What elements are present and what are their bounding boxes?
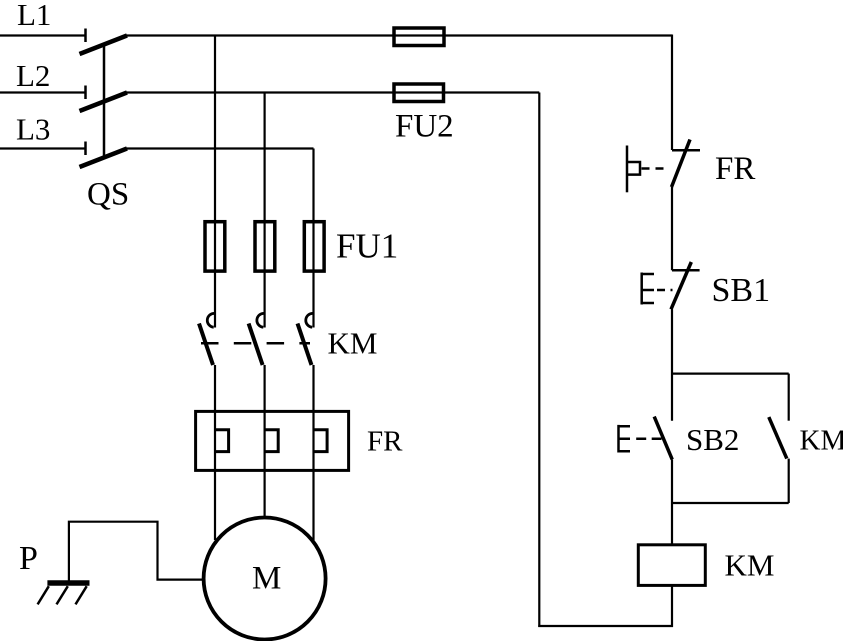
button SB1 blade — [671, 262, 691, 309]
wire rail SB2 to bottom branch — [671, 459, 673, 544]
wire rail SB1 to branch — [671, 309, 673, 420]
button SB1 dashed link — [657, 289, 673, 292]
wire left control rail (to FU2 lower) — [538, 93, 540, 628]
FR contact blade — [672, 140, 691, 188]
motor M circle — [204, 518, 326, 640]
FR trip dashed link — [642, 167, 665, 170]
wire L2 input — [0, 91, 86, 93]
wire bottom return horizontal — [538, 625, 673, 627]
contactor KM main contact 3 arc — [306, 313, 313, 327]
control rail right vertical (from L1) — [671, 35, 673, 151]
QS pole 2 blade — [80, 93, 128, 112]
wire phase 2 vertical — [264, 93, 266, 328]
wire phase 3 vertical — [312, 149, 314, 328]
switch QS linkage bar — [103, 44, 106, 158]
wire branch bottom horizontal — [672, 502, 789, 504]
contactor KM auxiliary contact blade — [769, 417, 787, 459]
FR trip actuator bar — [626, 146, 629, 193]
svg-text:KM: KM — [328, 326, 378, 361]
FR trip actuator bump — [628, 162, 640, 175]
svg-text:FR: FR — [715, 151, 755, 187]
contactor KM main contact 1 arc — [207, 313, 214, 327]
QS pole 3 blade — [80, 149, 128, 168]
contactor KM main contact 2 blade — [249, 324, 263, 366]
wire phase 3 below KM contact to motor — [312, 365, 314, 540]
QS pole 1 blade — [80, 36, 128, 55]
wire earth to motor frame — [69, 522, 205, 582]
QS pole 3 fixed contact tick — [84, 142, 87, 156]
svg-text:P: P — [19, 540, 38, 577]
earth hatch 2 — [57, 586, 68, 604]
button SB1 fixed tick — [672, 269, 700, 272]
contactor KM linkage dashed line — [201, 342, 310, 345]
wire phase 1 vertical (L1 down to KM contact) — [214, 36, 216, 328]
wire L2 to left control rail — [127, 91, 540, 93]
earth hatch 3 — [76, 586, 87, 604]
FR heater element 1 — [215, 430, 229, 452]
svg-text:L2: L2 — [16, 58, 50, 93]
svg-text:FU2: FU2 — [395, 109, 454, 145]
fuse FU1 phase 1 — [205, 222, 225, 271]
earth hatch 1 — [38, 586, 49, 604]
earth bar — [47, 580, 89, 586]
FR heater element 2 — [265, 430, 279, 452]
QS pole 1 fixed contact tick — [84, 29, 87, 43]
wire L3 input — [0, 147, 86, 149]
contactor KM main contact 3 blade — [298, 324, 312, 366]
svg-text:M: M — [252, 561, 281, 597]
button SB1 actuator E — [641, 273, 654, 305]
fuse FU1 phase 3 — [304, 222, 324, 271]
svg-text:SB2: SB2 — [686, 422, 739, 457]
svg-text:KM: KM — [800, 425, 843, 457]
svg-text:FU1: FU1 — [336, 226, 398, 265]
FR heater element 3 — [314, 430, 328, 452]
wire phase 1 below KM contact to motor — [214, 365, 216, 540]
fuse FU2 lower (L2) — [394, 84, 444, 102]
wire branch top horizontal — [672, 373, 789, 375]
svg-text:QS: QS — [87, 177, 129, 213]
svg-text:SB1: SB1 — [712, 272, 771, 309]
wire branch right vertical upper — [788, 374, 790, 421]
FR contact fixed tick — [672, 149, 700, 152]
QS pole 2 fixed contact tick — [84, 86, 87, 100]
wire phase 2 below KM contact to motor — [264, 365, 266, 518]
fuse FU2 upper (L1) — [394, 28, 444, 46]
svg-text:FR: FR — [367, 426, 403, 458]
wire coil bottom to return rail — [671, 585, 673, 627]
wire branch right vertical lower — [788, 459, 790, 503]
button SB2 blade — [654, 417, 672, 460]
svg-text:L3: L3 — [16, 112, 50, 147]
svg-text:L1: L1 — [17, 0, 51, 32]
fuse FU1 phase 2 — [255, 222, 275, 271]
coil KM rectangle — [638, 545, 705, 586]
wire L3 to phase 3 vertical — [127, 147, 314, 149]
contactor KM main contact 1 blade — [199, 324, 213, 366]
wire L1 input — [0, 34, 86, 36]
thermal relay FR heater box — [196, 411, 349, 470]
wire rail FR to SB1 — [671, 187, 673, 270]
button SB2 actuator E — [618, 425, 631, 453]
svg-text:KM: KM — [725, 547, 775, 582]
contactor KM main contact 2 arc — [257, 313, 264, 327]
button SB2 dashed link — [636, 437, 661, 440]
wire L1 to control rail — [127, 34, 673, 36]
